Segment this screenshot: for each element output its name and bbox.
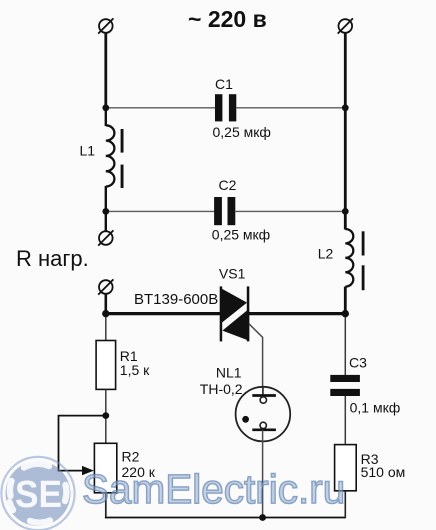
svg-text:SE: SE — [15, 474, 62, 516]
svg-text:0,1 мкф: 0,1 мкф — [350, 400, 401, 416]
NL1 bottom lead wire to bottom rail — [262, 430, 264, 518]
svg-text:C1: C1 — [215, 76, 233, 92]
svg-text:R нагр.: R нагр. — [16, 246, 89, 271]
svg-text:0,25 мкф: 0,25 мкф — [212, 226, 270, 242]
svg-text:SamElectric.ru: SamElectric.ru — [82, 466, 345, 512]
NL1 top lead inside bulb — [262, 387, 264, 395]
wire node F to triac A1 (thick) — [106, 312, 221, 315]
wire node A to C1 left — [106, 107, 215, 109]
svg-text:0,25 мкф: 0,25 мкф — [213, 124, 271, 140]
wire R1 bottom to R2 top — [105, 389, 107, 443]
NL1 gas dot — [242, 416, 249, 423]
neon lamp NL1 bulb — [236, 387, 291, 442]
L1 core bar upper — [121, 129, 124, 153]
NL1 top electrode bar — [252, 394, 276, 397]
wire L1 bottom to node B — [105, 186, 107, 211]
L2 core bar lower — [362, 265, 365, 290]
svg-text:ТН-0,2: ТН-0,2 — [200, 381, 243, 397]
wire node D to C3 — [344, 314, 346, 375]
potentiometer wiper arrowhead — [82, 466, 94, 475]
L2 core bar upper — [362, 231, 365, 255]
svg-text:1,5 к: 1,5 к — [120, 362, 150, 378]
wire node F to R1 top — [105, 314, 107, 341]
junction node H (lamp to rail) — [259, 514, 266, 521]
NL1 bottom electrode support circle — [260, 422, 266, 428]
junction node A — [102, 104, 109, 111]
junction node E — [342, 208, 349, 215]
wire node B to C2 left — [106, 210, 215, 212]
wire node A to L1 top — [105, 108, 107, 126]
wire triac A2 to node D (thick) — [248, 312, 345, 315]
capacitor C3 — [330, 375, 360, 396]
resistor R2 — [94, 443, 116, 493]
capacitor C2 — [214, 197, 235, 225]
NL1 bottom electrode bar — [252, 428, 276, 431]
svg-text:510 ом: 510 ом — [361, 464, 406, 480]
junction node D — [342, 310, 349, 317]
L1 core bar lower — [121, 165, 124, 188]
svg-text:~ 220 в: ~ 220 в — [188, 6, 267, 32]
terminal X4 (load lower) — [98, 279, 113, 294]
svg-text:R2: R2 — [122, 448, 140, 464]
junction node G (wiper tap) — [102, 412, 109, 419]
inductor L2 — [345, 229, 353, 287]
svg-text:C2: C2 — [219, 177, 237, 193]
wire C1 right to node C — [236, 107, 345, 109]
triac VS1 upper triangle — [222, 289, 247, 323]
NL1 top electrode support circle — [260, 397, 266, 403]
triac gate wire — [249, 324, 263, 387]
triac VS1 right bar — [247, 286, 250, 341]
junction node B — [102, 208, 109, 215]
svg-text:L1: L1 — [80, 143, 96, 159]
resistor R1 — [96, 341, 116, 390]
svg-text:C3: C3 — [349, 355, 367, 371]
wire C2 right to node E — [235, 210, 345, 212]
terminal X3 (load upper) — [98, 230, 113, 245]
svg-text:VS1: VS1 — [219, 265, 246, 281]
wire R2 bottom to bottom rail — [105, 493, 107, 519]
wire X1 to node A — [104, 33, 107, 108]
junction node F — [102, 310, 109, 317]
potentiometer wiper wire — [59, 416, 106, 471]
triac VS1 lower triangle — [222, 309, 249, 341]
bottom rail wire — [105, 517, 345, 519]
triac VS1 left bar — [220, 286, 223, 341]
watermark logo swirls — [10, 464, 67, 523]
terminal X2 (top right) — [338, 18, 353, 33]
watermark logo disc — [6, 461, 71, 526]
wire L2 bottom to node D — [344, 287, 347, 314]
watermark logo outer ring — [1, 457, 74, 530]
svg-text:BT139-600B: BT139-600B — [134, 291, 218, 308]
wire X4 to node F — [105, 294, 108, 314]
junction node C — [342, 104, 349, 111]
wire R3 bottom to bottom rail — [344, 491, 346, 519]
svg-text:NL1: NL1 — [216, 364, 242, 380]
inductor L1 — [106, 125, 115, 186]
svg-text:L2: L2 — [318, 246, 334, 262]
wire C3 to R3 — [344, 396, 346, 445]
resistor R3 — [335, 445, 357, 491]
wire node B to X3 — [105, 211, 107, 231]
capacitor C1 — [215, 94, 236, 121]
wire X2 down to L2 top — [344, 33, 347, 230]
terminal X1 (top left) — [98, 18, 113, 33]
